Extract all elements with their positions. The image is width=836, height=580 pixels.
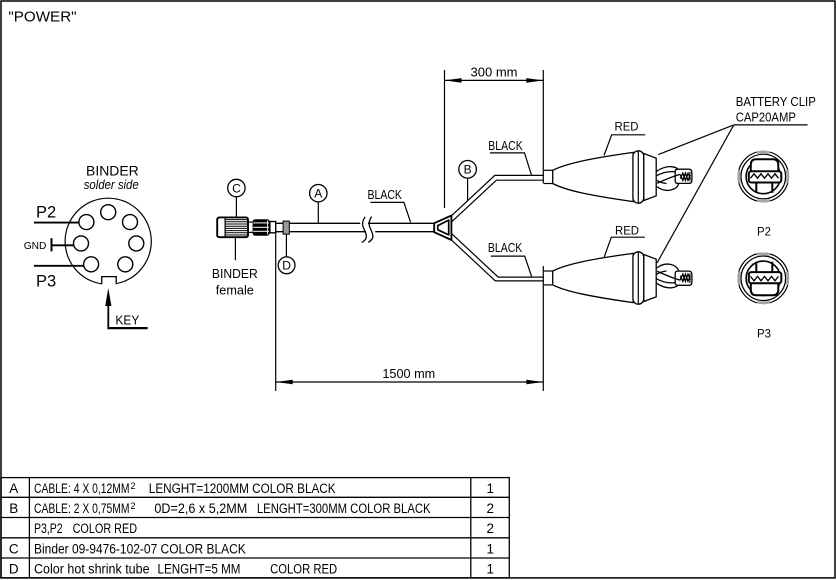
svg-text:CABLE: 4 X 0,12MM: CABLE: 4 X 0,12MM <box>34 481 130 496</box>
hot shrink tube D gray band <box>283 221 289 234</box>
svg-text:C: C <box>9 541 19 556</box>
BOM table <box>1 478 509 578</box>
cable break symbol <box>362 217 373 243</box>
wire branch upper <box>451 175 544 221</box>
battery clip P2 upper: boot <box>553 152 634 201</box>
label BLACK upper branch <box>488 138 531 175</box>
balloon A <box>310 185 327 223</box>
svg-text:Color hot shrink tube: Color hot shrink tube <box>34 561 150 576</box>
connector neck <box>248 222 252 232</box>
pin lower-right <box>118 257 133 272</box>
label RED lower <box>604 223 645 257</box>
wire GND to pin with tick <box>52 238 74 251</box>
wire branch lower <box>451 234 544 281</box>
svg-text:solder side: solder side <box>84 177 139 192</box>
dimension 1500 mm <box>276 232 544 391</box>
pin lower-left P3 <box>84 257 99 272</box>
battery clip P2 upper: neck <box>544 170 553 183</box>
table row D <box>9 561 494 576</box>
svg-text:LENGHT=5 MM: LENGHT=5 MM <box>158 561 241 576</box>
battery clip P2 upper: collar <box>633 151 644 203</box>
svg-text:A: A <box>314 187 322 201</box>
svg-text:COLOR RED: COLOR RED <box>270 561 337 576</box>
battery clip P3 lower: collar <box>633 252 644 304</box>
svg-text:GND: GND <box>24 240 47 252</box>
svg-text:RED: RED <box>615 120 639 134</box>
svg-text:Binder 09-9476-102-07 COLOR BL: Binder 09-9476-102-07 COLOR BLACK <box>34 541 246 556</box>
svg-text:D: D <box>282 259 291 273</box>
connector rear nut <box>270 222 276 233</box>
pin mid-right <box>129 236 144 251</box>
label BINDER female <box>212 267 258 297</box>
table row C <box>9 541 494 556</box>
label RED upper <box>604 120 645 156</box>
svg-text:2: 2 <box>131 501 136 511</box>
svg-text:CABLE: 2 X 0,75MM: CABLE: 2 X 0,75MM <box>34 501 130 516</box>
wire P3 to pin <box>34 265 84 267</box>
svg-text:COLOR RED: COLOR RED <box>73 521 138 536</box>
svg-text:B: B <box>464 163 472 177</box>
svg-text:1: 1 <box>486 541 494 556</box>
svg-text:P2: P2 <box>36 204 56 222</box>
pin upper-right <box>123 215 138 230</box>
svg-text:P3: P3 <box>36 272 56 290</box>
connector U1 shell circle <box>65 198 151 284</box>
balloon C <box>228 179 245 217</box>
svg-text:2: 2 <box>131 481 136 491</box>
svg-text:BLACK: BLACK <box>368 187 403 202</box>
battery clip P3 lower: head taper <box>644 255 656 302</box>
svg-text:1: 1 <box>486 561 494 576</box>
clip front view P2 <box>738 151 788 201</box>
svg-text:A: A <box>9 481 18 496</box>
Y splitter inner <box>438 220 449 235</box>
svg-text:B: B <box>9 501 18 516</box>
table row B <box>9 501 494 516</box>
svg-text:LENGHT=300MM COLOR BLACK: LENGHT=300MM COLOR BLACK <box>257 501 431 516</box>
table row A <box>9 481 494 496</box>
svg-text:BATTERY CLIP: BATTERY CLIP <box>736 94 816 109</box>
battery clip P3 lower: boot <box>553 253 634 302</box>
pin top <box>101 205 116 220</box>
svg-text:CAP20AMP: CAP20AMP <box>736 109 796 124</box>
svg-text:P3,P2: P3,P2 <box>34 521 63 536</box>
svg-text:BLACK: BLACK <box>488 138 523 153</box>
battery clip P3 lower: neck <box>544 271 553 285</box>
svg-text:1: 1 <box>486 481 494 496</box>
table row P3,P2 <box>34 521 494 536</box>
svg-text:P3: P3 <box>757 327 771 341</box>
svg-text:LENGHT=1200MM COLOR BLACK: LENGHT=1200MM COLOR BLACK <box>149 481 336 496</box>
pin mid-left GND <box>74 236 89 251</box>
label BLACK main cable <box>368 187 411 222</box>
clip front view P3 <box>738 253 788 303</box>
svg-text:D: D <box>9 561 19 576</box>
svg-text:BLACK: BLACK <box>488 240 523 255</box>
wire main cable segment 2 <box>368 223 434 231</box>
pin upper-left P2 <box>79 215 94 230</box>
label BLACK lower branch <box>488 240 532 277</box>
balloon D <box>278 234 295 273</box>
svg-text:C: C <box>232 181 241 195</box>
battery clip P3 lower: jaws <box>657 264 692 288</box>
connector knurled ring <box>253 219 270 235</box>
balloon B <box>459 161 477 201</box>
svg-text:0D=2,6 x 5,2MM: 0D=2,6 x 5,2MM <box>154 501 247 516</box>
KEY arrow <box>105 288 148 328</box>
svg-text:female: female <box>216 283 254 297</box>
dimension 300 mm <box>445 65 544 208</box>
svg-text:BINDER: BINDER <box>212 267 258 281</box>
wire main cable segment 1 <box>276 223 366 231</box>
svg-text:RED: RED <box>615 223 639 237</box>
svg-text:P2: P2 <box>757 225 771 239</box>
label BATTERY CLIP CAP20AMP <box>657 94 816 263</box>
svg-text:"POWER": "POWER" <box>8 8 76 25</box>
svg-text:300 mm: 300 mm <box>471 65 518 80</box>
svg-text:2: 2 <box>486 501 494 516</box>
battery clip P2 upper: jaws <box>657 167 692 191</box>
Y splitter outer <box>434 216 451 241</box>
svg-text:1500 mm: 1500 mm <box>382 366 435 381</box>
key notch <box>101 276 117 286</box>
svg-text:KEY: KEY <box>115 312 139 327</box>
svg-text:2: 2 <box>486 521 494 536</box>
connector J1 binder female body <box>217 217 248 237</box>
wire P2 to pin <box>34 222 79 224</box>
battery clip P2 upper: head taper <box>644 154 656 201</box>
leader to BINDER female label <box>234 237 236 260</box>
